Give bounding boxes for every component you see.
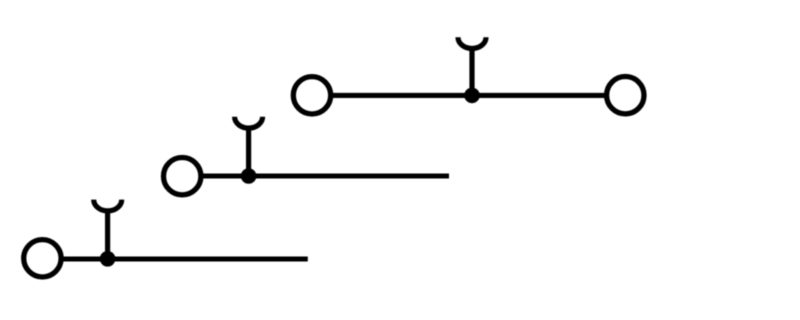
wire bottom level: [62, 256, 308, 261]
wire tap vertical top level: [469, 48, 474, 96]
wire middle level: [202, 173, 449, 178]
wire tap vertical bottom level: [105, 210, 110, 259]
level 3 (bottom) terminal circle left: [24, 240, 61, 277]
test socket fork bottom level: [94, 200, 122, 211]
level 1 (top) terminal circle left: [293, 77, 330, 114]
junction bottom level: [100, 251, 116, 267]
wire tap vertical middle level: [246, 127, 251, 176]
level 1 terminal circle right: [607, 77, 644, 114]
junction middle level: [241, 168, 257, 184]
level 2 (middle) terminal circle left: [164, 158, 201, 195]
test socket fork top level: [458, 37, 486, 48]
test socket fork middle level: [235, 117, 263, 128]
wire top level: [331, 93, 605, 98]
junction top level: [464, 88, 480, 104]
